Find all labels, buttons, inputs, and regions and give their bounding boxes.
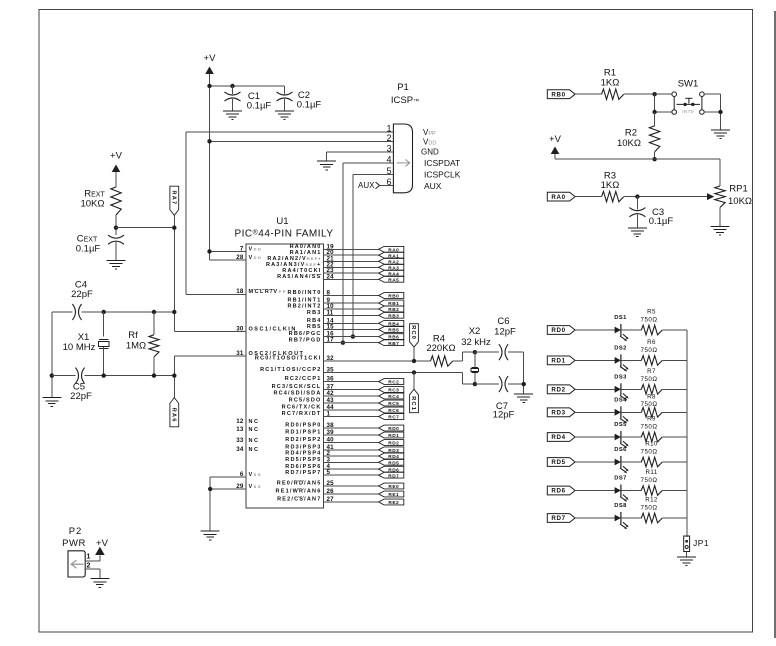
wire RC1 pin35 — [324, 372, 463, 374]
svg-text:RD2: RD2 — [388, 441, 399, 447]
LED DS2 — [615, 357, 621, 364]
wire DS4 to R8 — [621, 411, 641, 413]
wire R2 to +V rail — [654, 152, 656, 159]
node RB0 source tag — [547, 90, 575, 99]
svg-text:12pF: 12pF — [494, 327, 516, 338]
svg-text:1KΩ: 1KΩ — [601, 180, 620, 191]
junction OSC2 vertical — [172, 373, 176, 377]
svg-text:0.1µF: 0.1µF — [297, 100, 322, 111]
resistor R4 — [431, 356, 453, 366]
wire RA7 to OSC1 — [173, 215, 175, 331]
svg-text:220KΩ: 220KΩ — [426, 343, 455, 354]
svg-text:RE2/CS/AN7: RE2/CS/AN7 — [277, 497, 321, 503]
P2 arrow — [71, 560, 83, 568]
svg-text:12: 12 — [236, 418, 244, 425]
node RC1 tag — [413, 373, 415, 390]
wire OSC2 to pin31 — [174, 355, 246, 357]
junction SW1 bottom — [652, 110, 656, 114]
wire R8 to LED bus — [662, 411, 687, 413]
svg-text:DS1: DS1 — [614, 315, 627, 321]
node tag RB5 — [379, 327, 404, 333]
node tag RD0 — [379, 425, 404, 431]
wire U1 pin 10 to tag RB2 — [324, 308, 379, 310]
svg-text:+V: +V — [549, 134, 562, 145]
wire U1 pin 2 to tag RD4 — [324, 455, 379, 457]
wire U1 pin 24 to tag RA5 — [324, 278, 379, 280]
svg-text:RB5: RB5 — [307, 324, 322, 330]
svg-text:0.1µF: 0.1µF — [247, 101, 272, 112]
svg-text:750Ω: 750Ω — [641, 401, 658, 408]
svg-text:RB4: RB4 — [307, 318, 322, 324]
svg-text:ICSPCLK: ICSPCLK — [424, 170, 461, 180]
node tag RB4 — [379, 320, 404, 326]
svg-text:Rf: Rf — [128, 330, 138, 341]
node tag RE1 — [379, 491, 404, 497]
svg-text:P2: P2 — [69, 526, 83, 537]
connector P1 body — [393, 124, 412, 193]
crystal X1 — [103, 312, 105, 337]
svg-text:PIC®44-PIN FAMILY: PIC®44-PIN FAMILY — [234, 228, 333, 239]
capacitor C3 — [636, 197, 638, 210]
svg-text:RD0: RD0 — [551, 327, 565, 334]
svg-text:10KΩ: 10KΩ — [728, 196, 752, 207]
svg-text:RD1/PSP1: RD1/PSP1 — [285, 430, 321, 436]
wire SW1 left branch — [654, 94, 656, 112]
node tag RC4 — [379, 393, 404, 399]
svg-text:R7: R7 — [647, 368, 656, 375]
wire U1 pin 26 to tag RE1 — [324, 493, 379, 495]
svg-text:R11: R11 — [645, 469, 657, 476]
junction X2 top — [473, 350, 477, 354]
svg-text:RC0: RC0 — [410, 325, 416, 340]
svg-text:1MΩ: 1MΩ — [126, 341, 146, 352]
junction RA7 Rext — [172, 226, 176, 230]
ground X2 — [514, 394, 533, 403]
svg-text:RA7: RA7 — [170, 191, 176, 206]
junction C1 — [230, 84, 234, 88]
node tag RB0 — [379, 293, 404, 299]
junction R1 SW1 top — [652, 92, 656, 96]
node tag RC2 — [379, 379, 404, 385]
ground Cext — [107, 260, 126, 269]
svg-text:RD0: RD0 — [388, 426, 399, 432]
node tag RC3 — [379, 387, 404, 393]
wire U1 pin 21 to tag RA2 — [324, 260, 379, 262]
wire U1 pin 23 to tag RA4 — [324, 272, 379, 274]
junction X1 top — [102, 310, 106, 314]
node tag RC5 — [379, 400, 404, 406]
svg-text:PWR: PWR — [62, 538, 86, 549]
wire U1 pin 41 to tag RD3 — [324, 449, 379, 451]
node tag RE0 — [379, 483, 404, 489]
svg-text:12pF: 12pF — [493, 410, 515, 421]
wire R1 to SW1 — [624, 93, 672, 95]
wire RD0 to DS1 — [575, 329, 615, 331]
wire DS8 to R12 — [621, 517, 641, 519]
LED DS5 — [615, 434, 621, 441]
resistor Rext — [111, 187, 121, 215]
svg-text:RC3/SCK/SCL: RC3/SCK/SCL — [272, 384, 322, 390]
wire JP1 to ground — [686, 552, 688, 557]
node tag RD4 — [379, 453, 404, 459]
wire R3 to RP1 wiper — [624, 196, 708, 198]
wire MCLR node to RA7 — [116, 227, 174, 229]
resistor R1 — [602, 89, 624, 99]
svg-text:13: 13 — [236, 426, 244, 433]
svg-text:RE0: RE0 — [388, 484, 399, 490]
wire U1 pin 5 to tag RD7 — [324, 474, 379, 476]
wire U1 pin 8 to tag RB0 — [324, 295, 379, 297]
wire RD7 to DS8 — [575, 517, 615, 519]
node RD3 source tag — [547, 408, 575, 417]
wire VDD pin28 — [210, 259, 247, 261]
wire P2 pin2 to ground — [85, 568, 100, 570]
node tag RA2 — [379, 258, 404, 264]
node tag RD1 — [379, 432, 404, 438]
wire U1 pin 43 to tag RC5 — [324, 402, 379, 404]
svg-text:RD7/PSP7: RD7/PSP7 — [285, 470, 321, 476]
svg-text:32 kHz: 32 kHz — [461, 337, 491, 348]
resistor R12 — [641, 513, 662, 523]
jumper JP1 — [684, 536, 690, 552]
svg-text:DS7: DS7 — [614, 476, 626, 482]
wire DS3 to R7 — [621, 388, 641, 390]
wire DS2 to R6 — [621, 359, 641, 361]
node tag RC6 — [379, 407, 404, 413]
capacitor C4 — [72, 304, 75, 320]
wire RD1 to DS2 — [575, 359, 615, 361]
wire U1 pin 3 to tag RD5 — [324, 461, 379, 463]
svg-text:RD5/PSP5: RD5/PSP5 — [285, 457, 321, 463]
svg-text:28: 28 — [236, 254, 244, 261]
wire RD2 to DS3 — [575, 388, 615, 390]
node tag RB3 — [379, 312, 404, 318]
node RD2 source tag — [547, 385, 575, 394]
svg-text:RB5: RB5 — [388, 328, 399, 334]
wire VPP to MCLR vertical — [185, 132, 187, 294]
svg-text:C6: C6 — [497, 316, 509, 327]
wire R6 to LED bus — [662, 359, 687, 361]
ground C2 — [275, 111, 294, 120]
svg-text:RD2/PSP2: RD2/PSP2 — [285, 437, 321, 443]
svg-text:R5: R5 — [647, 309, 656, 316]
svg-text:+V: +V — [110, 151, 123, 162]
node RC0 tag — [410, 324, 419, 348]
svg-text:R12: R12 — [645, 497, 658, 504]
wire OSC2 net horizontal — [52, 375, 76, 377]
crystal X2 — [472, 366, 479, 368]
page edge line right — [774, 11, 776, 638]
svg-text:R10: R10 — [645, 441, 658, 448]
svg-text:RA6: RA6 — [170, 408, 176, 423]
resistor R6 — [641, 356, 662, 366]
svg-text:DS8: DS8 — [614, 503, 627, 509]
ground oscillator — [42, 398, 61, 407]
svg-text:NC: NC — [249, 447, 260, 453]
wire U1 pin 22 to tag RA3 — [324, 266, 379, 268]
LED DS6 — [615, 459, 621, 466]
wire DS5 to R9 — [621, 436, 641, 438]
wire R11 to LED bus — [662, 490, 687, 492]
svg-text:NC: NC — [249, 427, 260, 433]
svg-text:7: 7 — [240, 245, 244, 252]
node tag RA1 — [379, 252, 404, 258]
ground VSS — [201, 531, 220, 540]
svg-text:+V: +V — [204, 53, 217, 64]
wire P2 pin1 to +V — [85, 560, 100, 562]
wire R10 to LED bus — [662, 461, 687, 463]
wire DS7 to R11 — [621, 490, 641, 492]
wire R5 to LED bus — [662, 329, 687, 331]
wire OSC1 to pin30 — [174, 331, 246, 333]
svg-text:RC1: RC1 — [410, 396, 416, 411]
wire VSS to ground — [210, 476, 246, 478]
node tag RD5 — [379, 459, 404, 465]
IC U1 body — [246, 244, 324, 508]
node tag RD2 — [379, 440, 404, 446]
svg-text:RD5: RD5 — [551, 459, 565, 466]
wire RD5 to DS6 — [575, 461, 615, 463]
node tag RA3 — [379, 264, 404, 270]
resistor R11 — [641, 486, 662, 496]
ground JP1 — [677, 557, 696, 566]
svg-text:RD1: RD1 — [551, 358, 565, 365]
wire U1 pin 37 to tag RC3 — [324, 389, 379, 391]
LED DS4 — [615, 409, 621, 416]
svg-text:RD3/PSP3: RD3/PSP3 — [285, 444, 321, 450]
svg-text:RB0: RB0 — [551, 91, 565, 98]
LED DS8 — [615, 515, 621, 522]
P1 orientation arrow — [397, 160, 410, 167]
capacitor C2 — [284, 86, 286, 94]
svg-text:DS4: DS4 — [614, 397, 627, 403]
node tag RA4 — [379, 270, 404, 276]
wire DS6 to R10 — [621, 461, 641, 463]
svg-text:22pF: 22pF — [70, 391, 92, 402]
junction Rext Cext — [114, 226, 118, 230]
wire SW1 right branch — [704, 93, 720, 95]
svg-text:RB3: RB3 — [307, 310, 322, 316]
wire U1 pin 39 to tag RD1 — [324, 434, 379, 436]
junction ICSPDAT RB7 — [341, 341, 345, 345]
svg-text:RE0/RD/AN5: RE0/RD/AN5 — [277, 481, 322, 487]
wire VDD pin7 — [210, 251, 247, 253]
svg-text:RC2: RC2 — [388, 380, 399, 386]
node tag RB7 — [379, 340, 404, 346]
junction R2 rail — [652, 157, 656, 161]
wire R12 to LED bus — [662, 517, 687, 519]
ground SW1 — [711, 130, 730, 139]
svg-text:GND: GND — [421, 148, 439, 157]
node RA6 tag — [170, 398, 179, 427]
wire C7 to ground — [508, 383, 524, 385]
wire U1 pin 11 to tag RB3 — [324, 314, 379, 316]
wire U1 pin 15 to tag RB5 — [324, 329, 379, 331]
svg-text:30: 30 — [236, 325, 244, 332]
svg-text:RC4: RC4 — [388, 394, 399, 400]
node tag RA5 — [379, 276, 404, 282]
wire U1 pin 25 to tag RE0 — [324, 485, 379, 487]
svg-text:RC0/T1OSO/T1CKI: RC0/T1OSO/T1CKI — [255, 356, 322, 362]
svg-text:RP1: RP1 — [729, 184, 747, 195]
wire U1 pin 44 to tag RC6 — [324, 409, 379, 411]
wire P1 pin5 ICSPCLK — [353, 174, 394, 176]
svg-text:JP1: JP1 — [693, 538, 709, 548]
ground P1 pin3 — [317, 161, 336, 170]
resistor R2 — [654, 112, 656, 126]
svg-text:DS3: DS3 — [614, 374, 627, 380]
svg-text:RD4: RD4 — [551, 434, 565, 441]
wire U1 pin 42 to tag RC4 — [324, 395, 379, 397]
svg-text:INT0: INT0 — [682, 109, 694, 115]
node tag RD7 — [379, 472, 404, 478]
node RD1 source tag — [547, 356, 575, 365]
svg-text:RB3: RB3 — [388, 313, 399, 319]
wire DS1 to R5 — [621, 329, 641, 331]
svg-text:22pF: 22pF — [71, 289, 93, 300]
wire +V rail vertical — [209, 86, 211, 260]
svg-text:RA4/T0CKI: RA4/T0CKI — [282, 268, 321, 274]
wire U1 pin 17 to tag RB7 — [324, 342, 379, 344]
wire U1 pin 27 to tag RE2 — [324, 501, 379, 503]
wire R9 to LED bus — [662, 436, 687, 438]
node RD7 source tag — [547, 514, 575, 523]
wire osc left vertical — [51, 312, 53, 397]
svg-text:RD6: RD6 — [551, 488, 565, 495]
wire U1 pin 36 to tag RC2 — [324, 381, 379, 383]
svg-text:RB7: RB7 — [388, 341, 399, 347]
wire P1 pin6 AUX — [380, 184, 394, 186]
wire OSC1 net horizontal — [52, 311, 73, 313]
svg-text:RD1: RD1 — [388, 433, 399, 439]
svg-text:RD5: RD5 — [388, 460, 399, 466]
resistor R10 — [641, 457, 662, 467]
junction VDD — [207, 249, 211, 253]
node RA7 tag — [170, 186, 179, 215]
node tag RB1 — [379, 300, 404, 306]
junction RC1 — [412, 370, 416, 374]
resistor R8 — [641, 408, 662, 418]
svg-text:RA0: RA0 — [551, 194, 565, 201]
node RD4 source tag — [547, 433, 575, 442]
junction osc left — [50, 373, 54, 377]
svg-text:DS6: DS6 — [614, 447, 627, 453]
node RD5 source tag — [547, 458, 575, 467]
wire U1 pin 14 to tag RB4 — [324, 322, 379, 324]
svg-text:RE2: RE2 — [388, 500, 399, 506]
svg-text:X2: X2 — [469, 326, 481, 337]
potentiometer RP1 — [707, 193, 714, 200]
svg-text:R2: R2 — [625, 128, 637, 139]
LED DS3 — [615, 386, 621, 393]
wire RB0 to R1 — [575, 93, 602, 95]
svg-text:RC7: RC7 — [388, 415, 399, 421]
svg-text:+V: +V — [96, 538, 109, 549]
svg-text:RD3: RD3 — [551, 410, 565, 417]
svg-text:RC4/SDI/SDA: RC4/SDI/SDA — [273, 391, 321, 397]
svg-text:18: 18 — [236, 288, 244, 295]
svg-text:RC6/TX/CK: RC6/TX/CK — [282, 405, 322, 411]
svg-text:NC: NC — [249, 438, 260, 444]
wire +V to C1 C2 — [210, 85, 285, 87]
svg-text:AUX: AUX — [424, 181, 442, 191]
svg-text:AUX: AUX — [358, 181, 375, 190]
svg-text:750Ω: 750Ω — [641, 376, 658, 383]
wire X2 bottom to C7 — [475, 383, 499, 385]
ground C3 — [628, 228, 647, 237]
svg-text:RB7/PGD: RB7/PGD — [289, 337, 322, 343]
svg-text:RE1/WR/AN6: RE1/WR/AN6 — [276, 489, 322, 495]
node tag RA0 — [379, 246, 404, 252]
resistor Rf — [153, 312, 155, 335]
junction ICSPCLK RB6 — [351, 334, 355, 338]
wire +V rail to RP1 — [555, 158, 720, 160]
wire R4 to X2 top — [453, 360, 463, 362]
node tag RB6 — [379, 334, 404, 340]
svg-text:ICSPDAT: ICSPDAT — [424, 158, 460, 168]
svg-text:DS2: DS2 — [614, 345, 626, 351]
svg-text:R6: R6 — [647, 339, 656, 346]
svg-text:RC5: RC5 — [388, 401, 399, 407]
svg-text:750Ω: 750Ω — [641, 505, 658, 512]
svg-text:31: 31 — [236, 350, 244, 357]
svg-text:P1: P1 — [397, 82, 409, 93]
wire U1 pin 9 to tag RB1 — [324, 302, 379, 304]
svg-text:RD7: RD7 — [388, 473, 399, 479]
capacitor C1 — [232, 86, 234, 94]
svg-text:34: 34 — [236, 446, 244, 453]
junction Rf bottom — [152, 373, 156, 377]
wire U1 pin 19 to tag RA0 — [324, 248, 379, 250]
wire X2 top to C6 — [475, 351, 499, 353]
node RD0 source tag — [547, 326, 575, 335]
svg-text:10KΩ: 10KΩ — [617, 138, 641, 149]
capacitor Cext — [108, 235, 124, 238]
wire P1 pin3 GND — [327, 151, 394, 153]
svg-text:1KΩ: 1KΩ — [601, 77, 620, 88]
capacitor C5 — [75, 368, 78, 384]
junction VSS — [208, 487, 212, 491]
junction X1 bottom — [102, 373, 106, 377]
wire RD6 to DS7 — [575, 490, 615, 492]
svg-text:750Ω: 750Ω — [641, 449, 658, 456]
capacitor C6 — [499, 344, 502, 360]
junction X2 ground — [522, 382, 526, 386]
svg-text:SW1: SW1 — [678, 79, 699, 90]
node tag RB2 — [379, 306, 404, 312]
LED DS1 — [615, 327, 621, 334]
wire RD4 to DS5 — [575, 436, 615, 438]
svg-text:RD0/PSP0: RD0/PSP0 — [285, 423, 321, 429]
node tag RE2 — [379, 499, 404, 505]
connector P2 body — [68, 551, 85, 577]
svg-text:RA5: RA5 — [388, 277, 399, 283]
svg-text:0.1µF: 0.1µF — [76, 244, 101, 255]
svg-text:RD2: RD2 — [551, 387, 565, 394]
ground C1 — [223, 111, 242, 120]
wire C6 to ground corner — [508, 351, 524, 353]
svg-text:RC7/RX/DT: RC7/RX/DT — [282, 411, 322, 417]
svg-text:RA5/AN4/SS: RA5/AN4/SS — [277, 274, 321, 280]
wire U1 pin 1 to tag RC7 — [324, 416, 379, 418]
svg-text:RC1/T1OSI/CCP2: RC1/T1OSI/CCP2 — [260, 367, 321, 373]
wire P1 pin1 VPP — [186, 131, 394, 133]
resistor R5 — [641, 325, 662, 335]
wire U1 pin 20 to tag RA1 — [324, 254, 379, 256]
svg-text:RD4/PSP4: RD4/PSP4 — [285, 451, 321, 457]
svg-text:U1: U1 — [276, 216, 288, 227]
svg-text:RC5/SDO: RC5/SDO — [289, 398, 322, 404]
